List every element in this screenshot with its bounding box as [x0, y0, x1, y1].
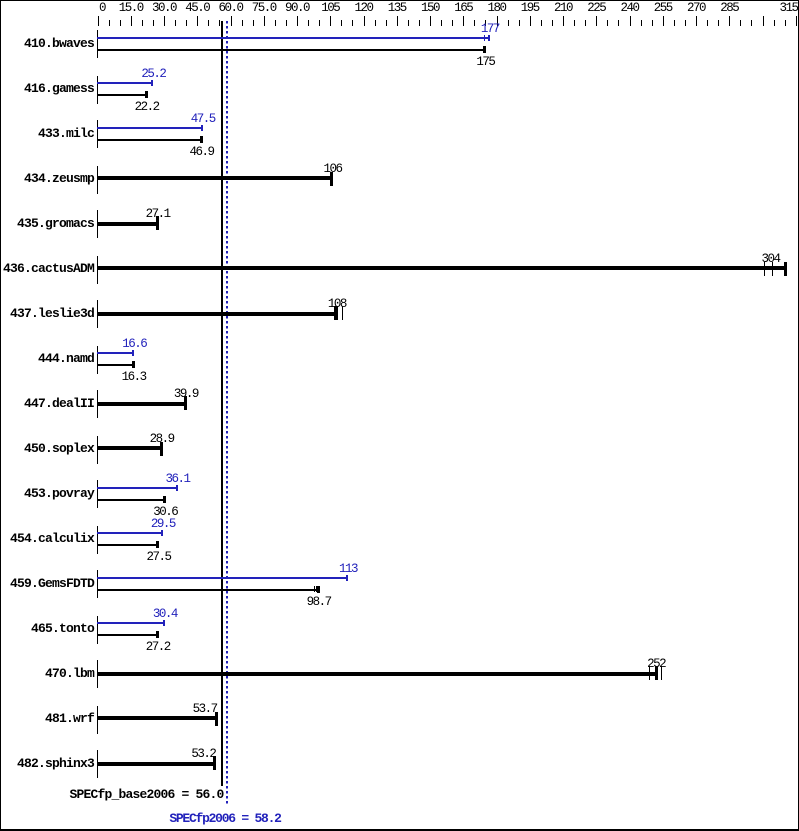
row 447.dealII [0, 398, 94, 410]
axis scale labels [82, 3, 122, 14]
SPECfp2006 dotted reference line at 58.2 [226, 21, 228, 805]
row 433.milc [0, 128, 94, 140]
row 450.soplex [0, 443, 94, 455]
row 470.lbm [0, 668, 94, 680]
row 436.cactusADM [0, 263, 94, 275]
row 435.gromacs [0, 218, 94, 230]
row 434.zeusmp [0, 173, 94, 185]
row 410.bwaves [0, 38, 94, 50]
row 459.GemsFDTD [0, 578, 94, 590]
row 444.namd [0, 353, 94, 365]
row 437.leslie3d [0, 308, 94, 320]
SPECfp_base2006 label [0, 789, 224, 801]
SPECfp_base2006 reference line at 56.0 [221, 21, 223, 786]
row 416.gamess [0, 83, 94, 95]
row 465.tonto [0, 623, 94, 635]
axis tick marks [98, 16, 99, 26]
row 454.calculix [0, 533, 94, 545]
row 453.povray [0, 488, 94, 500]
row 482.sphinx3 [0, 758, 94, 770]
SPECfp2006 label [105, 813, 345, 825]
row 481.wrf [0, 713, 94, 725]
